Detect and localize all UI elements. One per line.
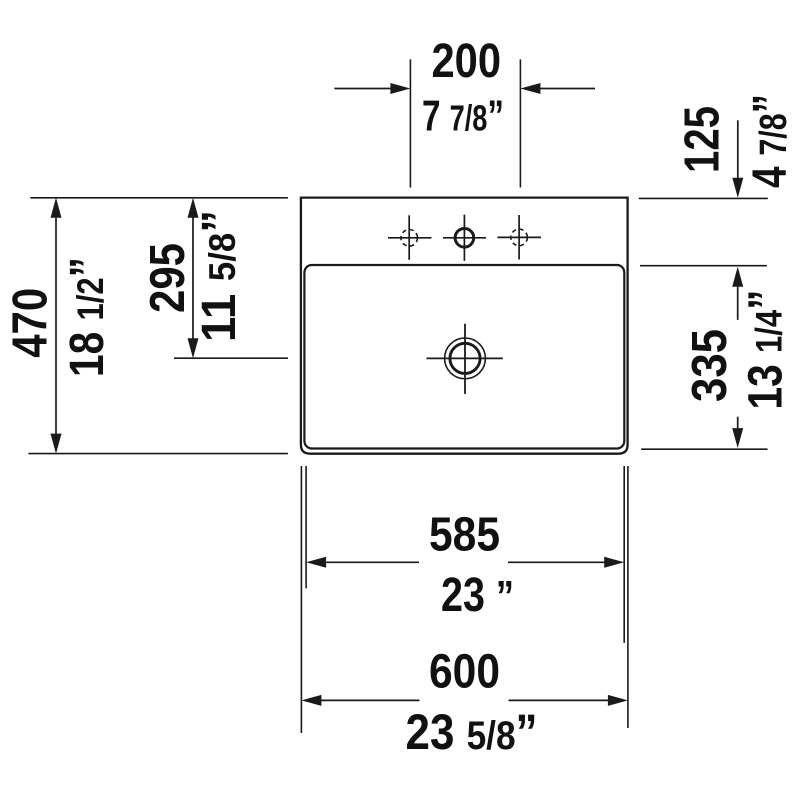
top edge extension line (right) [639, 197, 768, 199]
top edge extension line (left) [30, 197, 288, 199]
svg-text:335: 335 [682, 329, 737, 402]
svg-text:600: 600 [429, 646, 500, 699]
dim 200 arrow left [334, 88, 391, 90]
dim 125 line with down arrow [737, 120, 739, 178]
drain crosshair [427, 357, 503, 359]
dim 200 extension lines [409, 59, 411, 187]
dim 600 line with arrows (gap behind label) [321, 699, 419, 701]
dim 200 arrow right [540, 88, 595, 90]
svg-text:585: 585 [429, 509, 500, 562]
sink outer rim (top view) [301, 198, 628, 454]
dim 470 line with arrows [55, 218, 57, 435]
bottom edge extension line (left) [28, 453, 288, 455]
faucet hole right (dashed) [498, 215, 542, 260]
basin top edge extension line (right) [640, 265, 767, 267]
dim 600 extension line right [627, 466, 629, 728]
sink basin inner edge [304, 265, 624, 449]
svg-text:200: 200 [432, 35, 502, 88]
drain centre extension line (left) [174, 357, 288, 359]
svg-text:7 7/8”: 7 7/8” [422, 92, 504, 141]
dim 335 upper stub with up arrow [732, 267, 743, 287]
dim 585 extension line right [623, 466, 625, 643]
svg-text:23 ”: 23 ” [441, 569, 514, 622]
dim 585 extension line left [305, 466, 307, 588]
drain inner circle [450, 343, 480, 373]
faucet hole center [443, 215, 486, 261]
dim 335 lower stub with down arrow [737, 417, 739, 429]
svg-text:125: 125 [675, 106, 730, 173]
drain outer circle [445, 338, 486, 379]
dim 585 line with arrows (gap behind label) [326, 561, 419, 563]
dim 295 line with arrows [192, 218, 194, 339]
svg-text:470: 470 [2, 288, 57, 358]
dim 600 extension line left [300, 466, 302, 733]
bottom edge extension line (right) [641, 448, 767, 450]
svg-text:295: 295 [140, 243, 195, 313]
faucet hole left (dashed) [388, 215, 432, 259]
